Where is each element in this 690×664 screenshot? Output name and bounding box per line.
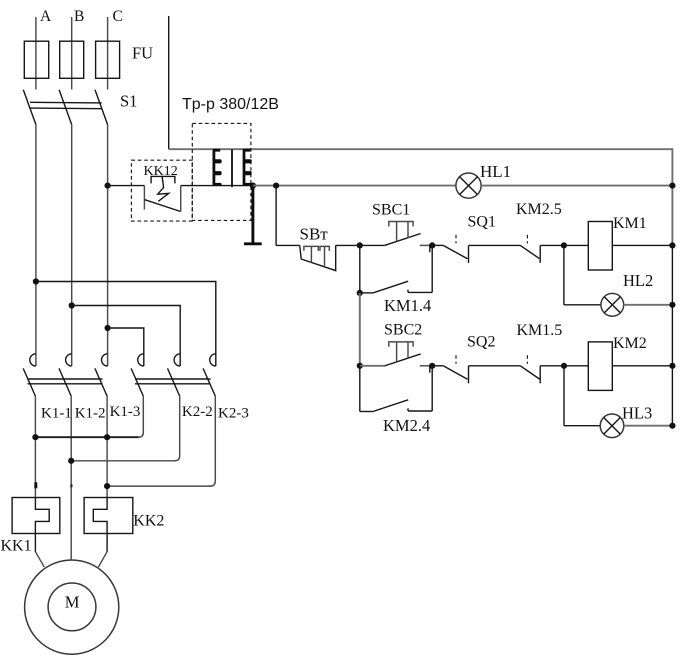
svg-text:KM2.4: KM2.4 <box>383 416 430 435</box>
wire tap B <box>72 306 181 367</box>
svg-text:A: A <box>40 8 52 25</box>
node SBC1 left junction <box>357 242 363 248</box>
wire HL3 to right edge <box>624 425 673 427</box>
wire bottom rail to HL1 <box>253 185 456 187</box>
wire HL3 drop <box>563 366 565 426</box>
wire HL3 left <box>564 425 600 427</box>
wire contact6 down <box>209 396 215 486</box>
wire HL1 to right edge <box>481 185 672 187</box>
node KM2 coil left junction <box>561 363 567 369</box>
node C tap junction <box>105 183 111 189</box>
thermal relay KK2 heater <box>93 498 107 552</box>
transformer primary winding <box>214 150 220 185</box>
node HL2 right junction <box>669 302 675 308</box>
thermal contact KK12 right terminal <box>180 186 182 212</box>
node A label <box>40 8 52 25</box>
pushbutton SBC2 blade <box>384 354 421 366</box>
wire phase A top <box>35 17 37 90</box>
node phase A tap <box>33 278 39 284</box>
wire node to SBC1 <box>360 244 384 246</box>
svg-text:SBт: SBт <box>300 225 329 244</box>
wire to SBt <box>276 244 300 246</box>
wire phase B middle <box>71 125 73 366</box>
node SBC2 right junction <box>429 363 435 369</box>
thermal relay KK1 box <box>12 498 60 534</box>
wire phase C top <box>107 17 109 90</box>
pushbutton SBC1 right lead <box>420 245 433 252</box>
thermal contact KK12 blade <box>144 200 180 212</box>
pushbutton SBC1 actuator <box>389 222 413 242</box>
pushbutton SBC2 right lead <box>420 366 433 373</box>
svg-text:HL3: HL3 <box>622 404 652 423</box>
node HL1 right junction <box>669 183 675 189</box>
wire tap C <box>108 328 144 366</box>
node U row left <box>32 434 38 440</box>
wire phase B top <box>71 17 73 90</box>
node control branch junction <box>273 183 279 189</box>
motor M inner circle <box>48 583 96 631</box>
pushbutton SBC1 blade <box>384 234 421 246</box>
wire KM1 coil to right edge <box>612 244 672 246</box>
thermal relay KK2 label <box>133 513 164 530</box>
svg-text:K1-1: K1-1 <box>41 406 72 422</box>
contact K1-3 label <box>110 404 141 420</box>
wire KM1.4 left vertical <box>359 245 361 293</box>
wire HL2 to right edge <box>624 304 673 306</box>
thermal relay KK1 heater <box>35 498 49 552</box>
wire SQ2 to KM1.5 <box>469 365 521 367</box>
wire phase C middle <box>107 125 109 366</box>
lamp HL1 <box>456 173 481 198</box>
switch S1 blade C <box>95 90 108 125</box>
switch S1 linkage bar lower <box>30 107 102 110</box>
svg-text:FU: FU <box>132 44 153 63</box>
limit switch SQ2 <box>432 355 468 383</box>
contact KM1.5 <box>520 355 540 383</box>
wire right edge upper (gray) <box>671 148 673 245</box>
node phase B tap <box>69 302 75 308</box>
wire phase A middle <box>35 125 37 366</box>
svg-text:KM1.4: KM1.4 <box>384 296 431 315</box>
wire motor lead W row <box>107 485 210 487</box>
contact K1-2 <box>59 354 72 396</box>
pushbutton SBt contact T1 <box>304 246 318 262</box>
contact K1-2 label <box>75 406 106 422</box>
contact KM1.5 label <box>517 322 563 339</box>
wire KM2.4 left vertical <box>359 366 361 412</box>
limit switch SQ1 <box>432 235 468 263</box>
coil KM2 label <box>613 335 647 352</box>
wire contact1 down <box>34 396 36 497</box>
contactor K1 linkage bars <box>28 379 103 384</box>
node B label <box>74 8 84 25</box>
svg-text:KK2: KK2 <box>133 513 164 530</box>
thermal contact KK12 dashed box <box>131 160 192 221</box>
switch S1 blade B <box>59 90 72 125</box>
node W row left <box>104 483 110 489</box>
motor M label <box>65 593 80 612</box>
wire node to SBC2 <box>360 365 384 367</box>
wire node to KM1 coil <box>564 244 588 246</box>
wire left vertical row1-row2 <box>359 293 361 366</box>
transformer secondary winding <box>244 150 250 185</box>
pushbutton SBC2 label <box>384 322 422 339</box>
pushbutton SBt contact T2 <box>320 246 329 265</box>
fuse FU pole C <box>96 41 120 78</box>
contactor K2 linkage bars <box>135 379 211 384</box>
pushbutton SBC1 label <box>372 202 410 219</box>
thermal contact KK12 actuator bar <box>151 176 175 183</box>
node secondary bottom junction <box>250 183 256 189</box>
wire HL2 drop <box>563 245 565 304</box>
coil KM1 <box>588 222 612 271</box>
pushbutton SBt label <box>300 225 329 244</box>
node KM1 right junction <box>669 242 675 248</box>
lamp HL2 <box>601 293 624 316</box>
contact KM2.5 label <box>516 201 562 218</box>
svg-text:KM1: KM1 <box>613 215 647 232</box>
ground <box>244 186 262 244</box>
node KM1 coil left junction <box>561 242 567 248</box>
svg-text:SQ1: SQ1 <box>468 214 496 231</box>
motor M outer circle <box>25 560 119 654</box>
svg-text:K1-3: K1-3 <box>110 404 141 420</box>
wire tap A <box>36 282 216 367</box>
thermal relay KK2 box <box>84 498 133 534</box>
contact K1-1 <box>23 354 36 396</box>
node phase C tap <box>105 325 111 331</box>
fuse FU label <box>132 44 153 63</box>
node V row left <box>68 458 74 464</box>
coil KM1 label <box>613 215 647 232</box>
lamp HL3 label <box>622 404 652 423</box>
svg-text:K1-2: K1-2 <box>75 406 106 422</box>
svg-text:KM2.5: KM2.5 <box>516 201 562 218</box>
wire node to KM2 coil <box>564 365 588 367</box>
joint mark on lead U <box>34 482 37 488</box>
contact K1-3 <box>95 354 108 396</box>
contact KM2.4 <box>360 366 432 412</box>
switch S1 blade A <box>23 90 36 125</box>
contact KM1.4 <box>360 245 432 293</box>
svg-text:KM1.5: KM1.5 <box>517 322 563 339</box>
svg-text:K2-2: K2-2 <box>182 404 213 420</box>
lamp HL3 <box>600 414 624 438</box>
wire HL2 left <box>564 304 601 306</box>
contact KM2.4 label <box>383 416 430 435</box>
transformer label <box>182 96 279 113</box>
wire top rail horizontal <box>169 148 674 150</box>
wire contact2 down <box>70 396 72 560</box>
limit switch SQ2 label <box>467 334 495 351</box>
contact K1-1 label <box>41 406 72 422</box>
wire KM2.5 to node <box>540 244 564 246</box>
wire motor lead U row <box>35 436 138 438</box>
node SBC2 left junction <box>357 363 363 369</box>
wire SBt to node <box>336 244 360 246</box>
fuse FU pole B <box>60 41 84 78</box>
wire KK12 to transformer <box>181 185 253 187</box>
thermal contact KK12 left terminal <box>143 186 145 210</box>
transformer core <box>231 149 233 187</box>
node HL3 right junction <box>669 423 675 429</box>
switch S1 linkage bar upper <box>30 101 102 104</box>
node KM1.4 left junction <box>357 290 363 296</box>
thermal contact KK12 label <box>144 164 178 179</box>
thermal contact KK12 release zigzag <box>158 176 169 201</box>
contact KM2.5 <box>520 235 540 263</box>
contact KM1.4 label <box>384 296 431 315</box>
svg-text:M: M <box>65 593 80 612</box>
svg-text:SQ2: SQ2 <box>467 334 495 351</box>
wire right edge lower (black) <box>671 245 673 425</box>
svg-text:B: B <box>74 8 84 25</box>
svg-text:KM2: KM2 <box>613 335 647 352</box>
contact K2-3 <box>203 354 216 396</box>
node U row mid <box>104 434 110 440</box>
pushbutton SBC2 actuator <box>389 342 413 362</box>
svg-text:Tp-p 380/12B: Tp-p 380/12B <box>182 96 279 113</box>
pushbutton SBt outline <box>300 245 336 270</box>
wire contact4 down <box>137 396 143 437</box>
contact K2-3 label <box>218 406 249 422</box>
svg-text:HL1: HL1 <box>480 162 511 181</box>
svg-text:KK1: KK1 <box>1 538 32 555</box>
wire C to KK12 <box>108 185 145 187</box>
limit switch SQ1 label <box>468 214 496 231</box>
svg-text:SBC1: SBC1 <box>372 202 410 219</box>
fuse FU pole A <box>24 41 48 78</box>
wire SQ1 to KM2.5 <box>469 244 521 246</box>
svg-text:S1: S1 <box>120 92 137 111</box>
wire feeder vertical <box>168 16 170 149</box>
node SBC1 right junction <box>429 242 435 248</box>
lamp HL1 label <box>480 162 511 181</box>
node C label <box>113 8 123 25</box>
switch S1 label <box>120 92 137 111</box>
lamp HL2 label <box>623 271 653 290</box>
svg-text:K2-3: K2-3 <box>218 406 249 422</box>
node KM2 right junction <box>669 363 675 369</box>
svg-text:HL2: HL2 <box>623 271 653 290</box>
contact K2-2 label <box>182 404 213 420</box>
contact K2-2 <box>168 354 181 396</box>
svg-text:C: C <box>113 8 123 25</box>
wire motor lead right slant <box>98 552 107 568</box>
wire motor lead left slant <box>35 552 44 568</box>
joint mark on lead V <box>70 484 72 487</box>
wire motor lead V row <box>71 460 175 462</box>
wire KM2 coil to right edge <box>612 365 672 367</box>
thermal relay KK1 label <box>1 538 32 555</box>
wire contact5 down <box>173 396 179 461</box>
wire contact3 down <box>106 396 108 497</box>
coil KM2 <box>588 342 612 391</box>
contact K2-1 <box>131 354 144 396</box>
transformer dashed box <box>192 123 251 220</box>
svg-text:SBC2: SBC2 <box>384 322 422 339</box>
wire control drop <box>275 186 277 246</box>
wire KM1.5 to node <box>540 365 564 367</box>
